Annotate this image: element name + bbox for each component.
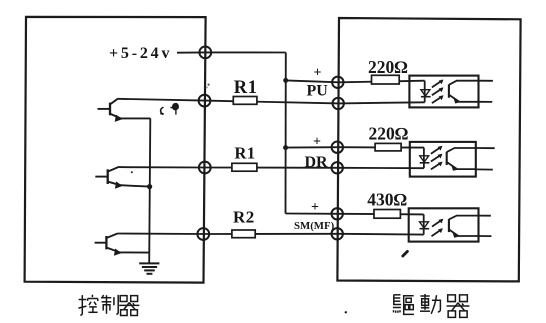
wire: R1b row to DR- terminal (205, 167, 339, 169)
terminal circle PU- (333, 98, 344, 109)
wire: Q3 emitter to ground bus (120, 251, 150, 253)
optocoupler U3 (SM) (409, 208, 492, 241)
glyph qu (drive) (393, 295, 414, 315)
wire: SM- terminal to LED cathode (339, 233, 424, 236)
junction dot DR+ tap (283, 145, 288, 150)
terminal circle PU+ (332, 77, 343, 88)
junction dot Q2 emitter/ground bus (147, 184, 152, 189)
resistor 220ohm (PU row) (372, 75, 400, 84)
svg-text:+: + (314, 66, 322, 81)
wire: ground bus vertical (149, 118, 150, 263)
svg-text:DR: DR (305, 154, 329, 171)
terminal circle R1b out (199, 162, 211, 174)
caption: driver (qu dong qi), hand-drawn glyphs (393, 294, 469, 317)
resistor 430ohm (SM row) (374, 210, 400, 219)
glyph qi (vessel) (119, 296, 139, 316)
glyph kong (control) (78, 295, 97, 316)
terminal circle DR+ (332, 142, 343, 153)
glyph zhi (system) (101, 295, 118, 314)
scan noise dash below U3 (403, 251, 408, 256)
svg-text:R1: R1 (235, 144, 256, 163)
svg-text:220Ω: 220Ω (368, 57, 408, 77)
wire: R1 row to PU- terminal (205, 101, 340, 104)
wire: supply rail elbow to SM+ terminal (286, 213, 340, 215)
scan noise squiggle near Q1 (160, 107, 164, 114)
resistor 220ohm (DR row) (375, 143, 401, 151)
wire: SM+ inside driver to LED anode (339, 213, 424, 216)
scan noise specks above R1 terminal (208, 84, 210, 86)
svg-text:R1: R1 (234, 78, 258, 98)
svg-text:+: + (311, 200, 319, 215)
junction dot PU+ tap (283, 78, 288, 83)
caption: controller (kong zhi qi), hand-drawn glyphs (78, 295, 139, 316)
terminal circle DR- (332, 162, 343, 173)
controller box (left enclosure) (25, 17, 206, 283)
svg-text:220Ω: 220Ω (369, 123, 409, 143)
svg-text:430Ω: 430Ω (367, 190, 407, 210)
transistor Q1 (98, 99, 123, 122)
wire: Q1 collector to R1 row (118, 99, 205, 101)
wire: DR+ inside driver to LED anode (339, 146, 424, 148)
resistor R1 (PU row) (233, 97, 257, 105)
optocoupler U2 (DR) (410, 142, 495, 177)
terminal circle SM+ (332, 208, 343, 219)
wire: Q2 emitter to ground bus junction (121, 185, 150, 186)
terminal circle R1 out (199, 95, 211, 107)
svg-text:PU: PU (307, 83, 329, 100)
wire: PU+ branch from +V bus (286, 80, 339, 82)
wire: +5-24v lead to terminal (177, 51, 205, 53)
svg-text:+5-24v: +5-24v (109, 45, 172, 62)
transistor Q3 (95, 234, 122, 256)
resistor R2 (SM row) (232, 230, 255, 238)
wire: DR- terminal to LED cathode (339, 167, 424, 169)
glyph dong (move) (420, 294, 440, 314)
wire: Q1 emitter to ground bus (120, 117, 150, 119)
resistor R1 (DR row) (232, 163, 257, 171)
driver box (right enclosure) (337, 18, 520, 281)
wire: supply rail vertical (+V bus) (285, 53, 287, 214)
wire: PU- terminal to LED cathode (339, 102, 425, 103)
wire: R2 row to SM- terminal (203, 233, 339, 235)
scan noise blob near Q1 (170, 103, 179, 115)
terminal circle +5-24v (199, 47, 211, 59)
svg-text:SM(MF): SM(MF) (294, 220, 335, 232)
wire: Q3 collector to R2 row (117, 233, 203, 236)
scan noise dot near driver label (345, 311, 347, 313)
terminal circle SM- (332, 228, 343, 239)
scan noise dot in Q2 (131, 171, 133, 173)
wire: DR+ branch from +V bus (286, 146, 339, 148)
ground (139, 263, 159, 273)
svg-text:+: + (313, 135, 321, 150)
glyph qi (vessel) (447, 295, 470, 317)
terminal circle R2 out (197, 228, 209, 240)
wire: PU+ inside driver to LED anode (339, 81, 425, 83)
wire: Q2 collector to R1b row (118, 166, 205, 168)
optocoupler U1 (PU) (409, 76, 493, 108)
wire: +5-24v terminal to supply rail elbow (205, 51, 285, 53)
transistor Q2 (95, 167, 122, 189)
svg-text:R2: R2 (233, 208, 255, 227)
